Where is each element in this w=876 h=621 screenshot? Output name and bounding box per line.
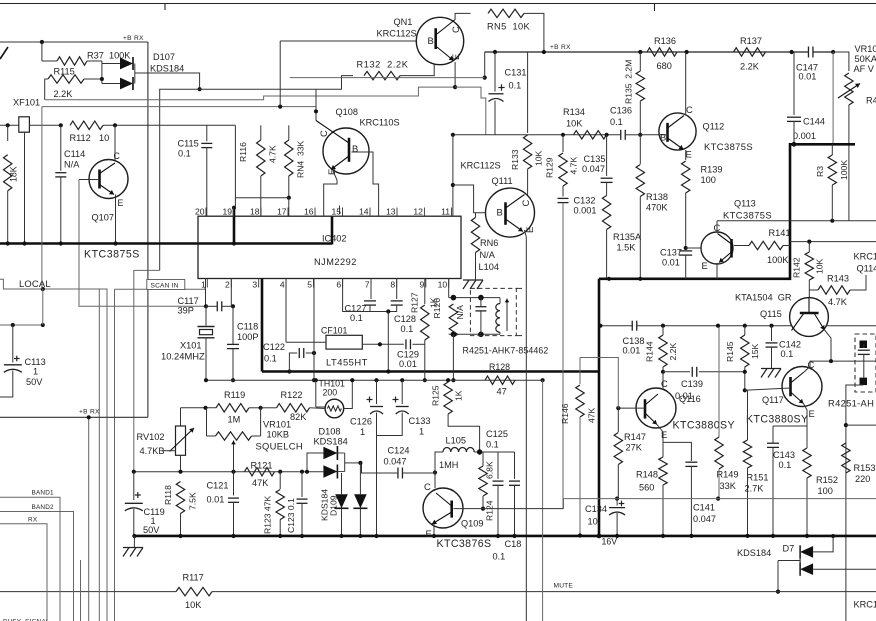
transistor QN1 bbox=[416, 17, 463, 64]
resistor R143 bbox=[818, 286, 850, 294]
svg-text:C: C bbox=[686, 104, 693, 115]
svg-text:MUTE: MUTE bbox=[554, 583, 574, 590]
label C136 bbox=[610, 106, 632, 116]
svg-text:100: 100 bbox=[818, 486, 833, 496]
wire squelch rail bbox=[134, 471, 324, 473]
svg-text:X101: X101 bbox=[180, 341, 201, 351]
svg-text:R145: R145 bbox=[725, 341, 735, 362]
label C143 value bbox=[779, 460, 792, 470]
svg-text:KTC3875S: KTC3875S bbox=[84, 249, 140, 261]
wire C126 bottom bbox=[376, 413, 378, 537]
svg-text:0.1: 0.1 bbox=[779, 460, 792, 470]
label CF101 bbox=[321, 326, 348, 336]
capacitor C123 bbox=[297, 499, 308, 503]
svg-text:10K: 10K bbox=[185, 600, 202, 610]
wire can col down bbox=[452, 334, 454, 380]
label C113 bbox=[25, 357, 46, 367]
label R123 rot bbox=[263, 496, 273, 534]
wire RN6 top bbox=[475, 213, 477, 218]
label C115 bbox=[178, 139, 199, 149]
Q107 collector diag bbox=[100, 163, 116, 174]
label pin 2 bbox=[225, 280, 230, 290]
node QN1 emitter bbox=[453, 85, 457, 89]
pin 13 stub bbox=[396, 208, 398, 217]
label MUTE right bbox=[554, 583, 574, 590]
label C119 bbox=[144, 507, 165, 517]
wire R145 top bbox=[744, 326, 746, 335]
wire LOCAL to QN1 base bbox=[42, 106, 316, 108]
thick trunk pin19 bbox=[233, 208, 236, 244]
wire BAND1 bbox=[0, 497, 60, 621]
wire TH101 right bbox=[344, 380, 353, 408]
wire Q109 emitter bbox=[433, 524, 435, 536]
svg-text:R124: R124 bbox=[485, 500, 495, 521]
wire RN5 right bbox=[524, 13, 544, 52]
node bus135 left bbox=[451, 133, 455, 137]
wire pin4 col bbox=[285, 279, 287, 343]
svg-text:KRC10: KRC10 bbox=[854, 252, 876, 262]
label C142 value bbox=[781, 349, 794, 359]
RV102 arrow bbox=[170, 428, 195, 452]
svg-text:0.001: 0.001 bbox=[574, 206, 597, 216]
wire R142 top bbox=[808, 242, 810, 252]
capacitor C143 bbox=[767, 443, 779, 447]
node bus325 c142 bbox=[769, 324, 773, 328]
label pin 13 bbox=[386, 206, 396, 216]
wire R122 right bbox=[310, 407, 326, 410]
svg-text:Q116: Q116 bbox=[679, 394, 701, 404]
wire trunk19 upper bbox=[234, 125, 236, 207]
wire C141 branch bbox=[663, 442, 691, 461]
label Q117 bbox=[762, 395, 784, 405]
wire R151 top bbox=[747, 390, 749, 440]
label KDS184 d108 bbox=[314, 437, 348, 447]
node can col bus bbox=[451, 378, 455, 382]
svg-text:R136: R136 bbox=[654, 36, 676, 46]
svg-text:E: E bbox=[524, 227, 535, 233]
node C114 gnd bbox=[59, 241, 63, 245]
svg-text:100K: 100K bbox=[839, 160, 849, 180]
wire R37 tap bbox=[41, 42, 43, 61]
Q109 base bar bbox=[450, 501, 453, 518]
svg-text:R142: R142 bbox=[792, 257, 802, 278]
wire 18K top bbox=[7, 125, 9, 141]
pin 4 stub bbox=[285, 279, 287, 288]
svg-text:XF101: XF101 bbox=[13, 98, 40, 108]
Q111 collector diag bbox=[506, 195, 525, 209]
wire C113 line bbox=[0, 324, 43, 326]
wire C135 top bbox=[606, 135, 608, 176]
label pin 7 bbox=[365, 280, 370, 290]
wire Q108 emitter out bbox=[324, 171, 337, 216]
wire R147 bottom bbox=[617, 465, 619, 499]
wire D108a in bbox=[307, 453, 323, 472]
wire R146 top bbox=[579, 358, 581, 385]
svg-text:C: C bbox=[318, 130, 329, 137]
label C142 bbox=[779, 340, 801, 350]
can2 sq bot bbox=[860, 378, 868, 386]
capacitor C121 bbox=[228, 498, 239, 502]
capacitor C128 bbox=[391, 301, 403, 305]
wire Q108 base out bbox=[352, 152, 379, 216]
wire R143 left bbox=[809, 289, 818, 291]
Q107 base wire bbox=[79, 179, 100, 181]
capacitor C114 bbox=[55, 173, 66, 177]
wire R118 bottom bbox=[180, 514, 182, 537]
svg-text:C142: C142 bbox=[779, 340, 801, 350]
label R142 bbox=[792, 257, 802, 278]
wire Q116 emitter bbox=[657, 425, 663, 458]
node D109a bus bbox=[340, 534, 344, 538]
wire C123 bottom bbox=[301, 503, 303, 536]
label C134 bbox=[585, 504, 607, 514]
resistor R37 bbox=[57, 57, 87, 65]
diode D7a bbox=[800, 545, 813, 558]
resistor R128 bbox=[485, 376, 515, 384]
node R152 bus bbox=[805, 534, 809, 538]
off-page connector mark left edge bbox=[0, 47, 8, 59]
svg-text:0.1: 0.1 bbox=[493, 552, 506, 562]
label QN1 C bbox=[450, 26, 461, 33]
svg-text:4: 4 bbox=[280, 280, 285, 290]
node D108 out bbox=[358, 461, 362, 465]
wire C117 leads bbox=[206, 305, 231, 307]
svg-text:47: 47 bbox=[497, 387, 507, 397]
svg-text:E: E bbox=[426, 528, 432, 539]
wire Q117 emitter bbox=[773, 404, 807, 427]
label C126 1 bbox=[360, 427, 365, 437]
label QN1 B bbox=[428, 35, 434, 46]
L104 can bottom rail bbox=[449, 333, 500, 335]
wire D7b right bbox=[813, 568, 876, 570]
svg-text:5: 5 bbox=[307, 280, 312, 290]
node pin5 bus bbox=[312, 378, 316, 382]
wire BAND2 bbox=[0, 512, 74, 621]
resistor R153 bbox=[842, 443, 850, 473]
transistor Q111 bbox=[486, 188, 535, 237]
label R153 value bbox=[855, 474, 870, 484]
node rail R121r bbox=[278, 470, 282, 474]
wire C115 to pin20 bbox=[206, 148, 208, 217]
svg-text:C131: C131 bbox=[505, 68, 527, 78]
capacitor C129 bbox=[406, 339, 411, 349]
label VR101 value bbox=[855, 54, 876, 64]
svg-text:0.047: 0.047 bbox=[693, 514, 716, 524]
node R124 bottom bbox=[481, 507, 485, 511]
wire D7a right bbox=[813, 536, 833, 552]
wire XF101 out bbox=[29, 124, 60, 126]
thermistor TH101 bbox=[325, 399, 344, 418]
svg-text:C132: C132 bbox=[574, 196, 596, 206]
svg-text:R4251-AH: R4251-AH bbox=[828, 398, 874, 409]
wire Q117 collector bbox=[804, 361, 876, 372]
label Q109 bbox=[461, 519, 483, 529]
label Q108 bbox=[336, 107, 358, 117]
pin 1 stub bbox=[206, 279, 208, 288]
capacitor C136 bbox=[621, 130, 626, 140]
wire long vert 542 bbox=[542, 380, 544, 621]
svg-text:N/A: N/A bbox=[64, 160, 80, 170]
wire CF101 out bbox=[362, 343, 404, 345]
inductor L104 coil bbox=[496, 298, 500, 335]
label R144 bbox=[645, 341, 655, 362]
resistor R149 bbox=[715, 437, 723, 469]
capacitor C125 bbox=[493, 481, 504, 485]
resistor R135 bbox=[636, 71, 644, 101]
svg-text:R4251-AHK7-854462: R4251-AHK7-854462 bbox=[463, 346, 549, 356]
svg-text:20: 20 bbox=[195, 206, 205, 216]
Q109 collector diag bbox=[436, 493, 452, 506]
label C134 value bbox=[588, 517, 598, 527]
wire Q116 collector bbox=[662, 372, 664, 390]
node D7 mute bbox=[776, 590, 780, 594]
wire D108 out bbox=[345, 462, 361, 464]
label R136 bbox=[654, 36, 676, 46]
Q108 collector diag bbox=[316, 121, 349, 144]
wire R116 top bbox=[260, 125, 262, 140]
label KTA1504 bbox=[735, 293, 792, 303]
svg-text:D7: D7 bbox=[783, 544, 795, 554]
node bus325 left bbox=[598, 324, 602, 328]
label KDS184 d109 rot bbox=[320, 489, 330, 521]
svg-text:470K: 470K bbox=[646, 203, 668, 213]
wire q111 base link bbox=[453, 185, 502, 213]
node Q116 base bbox=[616, 406, 620, 410]
svg-text:560: 560 bbox=[639, 483, 654, 493]
label C125 value bbox=[486, 440, 499, 450]
label R4 bbox=[866, 96, 876, 106]
capacitor C113 bbox=[4, 365, 22, 373]
wire y371 c139 bbox=[663, 371, 690, 373]
label D108 bbox=[319, 427, 341, 437]
label +B RX right bbox=[550, 44, 571, 51]
wire R149 bottom bbox=[718, 469, 720, 499]
Q112 base bar bbox=[666, 123, 669, 142]
svg-text:Q112: Q112 bbox=[703, 122, 725, 132]
svg-text:R4: R4 bbox=[866, 96, 876, 106]
node q117 base node bbox=[743, 388, 747, 392]
svg-text:4.7K: 4.7K bbox=[569, 157, 579, 175]
node bus xf bbox=[22, 241, 26, 245]
svg-text:50V: 50V bbox=[26, 377, 43, 387]
wire c119 feed bbox=[134, 270, 160, 472]
svg-text:R144: R144 bbox=[645, 341, 655, 362]
label R125 bbox=[431, 385, 441, 406]
svg-text:C141: C141 bbox=[693, 503, 715, 513]
node R119 left bbox=[203, 406, 207, 410]
label Q112 E bbox=[686, 149, 692, 160]
capacitor C139 bbox=[692, 367, 697, 377]
svg-text:10K: 10K bbox=[815, 258, 825, 274]
wire C136 right lead bbox=[625, 134, 640, 136]
label C118 bbox=[237, 322, 258, 332]
node C127/C128 join bbox=[386, 309, 390, 313]
node trunk19 top bbox=[232, 206, 236, 210]
label SQUELCH bbox=[256, 441, 303, 452]
node L105 right bbox=[477, 449, 482, 454]
capacitor C133 bbox=[396, 407, 409, 415]
label R121 value bbox=[252, 478, 269, 488]
resistor R129 bbox=[559, 153, 567, 186]
wire QN1 emitter down bbox=[454, 62, 456, 87]
label C141 bbox=[693, 503, 715, 513]
wire C113 top lead bbox=[12, 325, 14, 363]
label +B RX bbox=[123, 35, 144, 42]
svg-text:0.01: 0.01 bbox=[799, 72, 817, 82]
node C133 top bbox=[400, 378, 404, 382]
wire R139 bottom bbox=[685, 193, 687, 248]
label R137 bbox=[740, 36, 762, 46]
label LOCAL bbox=[19, 278, 51, 289]
pin 18 stub bbox=[260, 208, 262, 217]
svg-text:R143: R143 bbox=[827, 274, 849, 284]
wire Q112 emitter bbox=[685, 150, 687, 160]
svg-text:+B RX: +B RX bbox=[79, 409, 100, 416]
label KDS184 d7 bbox=[737, 548, 771, 558]
capacitor C147 bbox=[808, 47, 813, 58]
wire cap mid bbox=[480, 298, 482, 335]
Q115 base bar bbox=[800, 312, 819, 315]
label C119 1 bbox=[151, 516, 156, 526]
node R125 top bbox=[446, 378, 450, 382]
transistor Q117 bbox=[782, 367, 822, 407]
label R147 value bbox=[626, 443, 643, 453]
label Q111 bbox=[492, 176, 513, 186]
svg-text:L104: L104 bbox=[479, 262, 499, 272]
capacitor C127 bbox=[364, 301, 376, 305]
svg-text:1: 1 bbox=[360, 427, 365, 437]
svg-text:0.047: 0.047 bbox=[384, 457, 407, 467]
L104 dashed stub bbox=[516, 288, 522, 335]
L104 can top rail bbox=[449, 297, 500, 299]
QN1 emitter diag bbox=[436, 46, 454, 61]
svg-text:13: 13 bbox=[386, 206, 396, 216]
label KRC112S q111 bbox=[461, 161, 501, 171]
label RV102 value bbox=[140, 446, 165, 456]
svg-text:KTC3875S: KTC3875S bbox=[704, 141, 753, 152]
label LT455HT bbox=[326, 357, 368, 368]
label R152 bbox=[816, 475, 838, 485]
label R126 bbox=[432, 298, 442, 319]
svg-text:C124: C124 bbox=[388, 446, 410, 456]
label pin 9 bbox=[420, 280, 425, 290]
wire R144 bottom bbox=[662, 367, 664, 372]
wire Q113 emitter bbox=[716, 263, 718, 279]
wire R152 bottom bbox=[806, 478, 808, 536]
label C129 value bbox=[399, 359, 417, 369]
label R134 value bbox=[566, 119, 583, 129]
svg-text:R153: R153 bbox=[854, 463, 876, 473]
resistor R142 bbox=[805, 252, 813, 280]
svg-text:R118: R118 bbox=[163, 485, 173, 505]
wire R37 left lead bbox=[42, 60, 57, 62]
label Q113 C bbox=[714, 222, 721, 233]
wire C124 left bbox=[362, 463, 399, 473]
wire C131 top bbox=[494, 52, 496, 92]
wire C133 top bbox=[401, 380, 403, 404]
wire D107 cathode join bbox=[134, 64, 136, 84]
node 18K gnd bbox=[6, 241, 10, 245]
wire C114 bottom bbox=[60, 177, 62, 244]
wire R151 bottom bbox=[747, 468, 749, 536]
label VR101 bbox=[855, 44, 876, 54]
Q115 emitter diag bbox=[814, 313, 825, 330]
node sig TH101 bbox=[314, 378, 318, 382]
svg-text:R116: R116 bbox=[238, 142, 248, 162]
wire local stair bbox=[0, 279, 107, 621]
resistor R125 bbox=[444, 382, 452, 414]
label TH101 bbox=[319, 379, 346, 389]
label pin 16 bbox=[304, 206, 314, 216]
label C124 value bbox=[384, 457, 407, 467]
svg-text:R117: R117 bbox=[183, 573, 204, 583]
node bus325 r144 bbox=[661, 324, 665, 328]
label C144 value bbox=[793, 131, 816, 141]
label C123 rot bbox=[286, 498, 296, 533]
svg-text:4.7KB: 4.7KB bbox=[140, 446, 165, 456]
wire pin17 link bbox=[235, 197, 288, 199]
label C139 bbox=[681, 379, 703, 389]
label R4251 right bbox=[828, 398, 874, 409]
svg-text:Q111: Q111 bbox=[492, 176, 513, 186]
resistor R148 bbox=[659, 457, 667, 485]
label R124 bbox=[485, 500, 495, 521]
wire bus135 bbox=[453, 134, 621, 136]
pin15 tick bbox=[339, 206, 341, 215]
wire C119 top bbox=[133, 472, 135, 500]
label R117 value bbox=[185, 600, 202, 610]
svg-text:R148: R148 bbox=[636, 470, 658, 480]
variable resistor RV102 bbox=[176, 426, 186, 455]
label pin 10 bbox=[438, 280, 448, 290]
Q115 collector lead bbox=[808, 298, 810, 313]
wire L105 right bbox=[474, 451, 498, 453]
node rail-emitter line bbox=[483, 76, 487, 80]
svg-text:R128: R128 bbox=[489, 362, 510, 372]
wire gnd stub bbox=[133, 536, 135, 547]
svg-text:R112: R112 bbox=[70, 133, 91, 143]
resistor R116 bbox=[257, 140, 265, 176]
svg-text:1: 1 bbox=[419, 427, 424, 437]
node rail C147L bbox=[790, 50, 794, 54]
svg-text:KDS184: KDS184 bbox=[150, 64, 184, 74]
label C117 value bbox=[178, 306, 194, 316]
label IC402 bbox=[322, 234, 347, 244]
label C139 value bbox=[675, 391, 693, 401]
node C126 top bbox=[374, 378, 378, 382]
label C147 bbox=[796, 63, 818, 73]
node C141 bus bbox=[689, 534, 693, 538]
wire C143 top bbox=[772, 426, 774, 443]
svg-text:C138: C138 bbox=[623, 336, 645, 346]
label R148 bbox=[636, 470, 658, 480]
svg-text:R134: R134 bbox=[563, 107, 585, 117]
label R118 bbox=[163, 485, 173, 505]
wire pin6 col bbox=[343, 279, 370, 312]
svg-text:D107: D107 bbox=[153, 52, 175, 62]
Q112 collector diag bbox=[668, 116, 685, 129]
label R135A value bbox=[617, 243, 637, 253]
label R128 value bbox=[497, 387, 507, 397]
label RN4 bbox=[296, 140, 306, 178]
label C134 plus bbox=[619, 501, 625, 507]
node R147 bottom bbox=[615, 497, 619, 501]
wire C147 drop bbox=[832, 52, 834, 144]
label C143 bbox=[773, 450, 795, 460]
svg-text:0.01: 0.01 bbox=[662, 258, 680, 268]
wire net452 bbox=[498, 451, 515, 453]
pin 10 stub bbox=[448, 279, 450, 288]
